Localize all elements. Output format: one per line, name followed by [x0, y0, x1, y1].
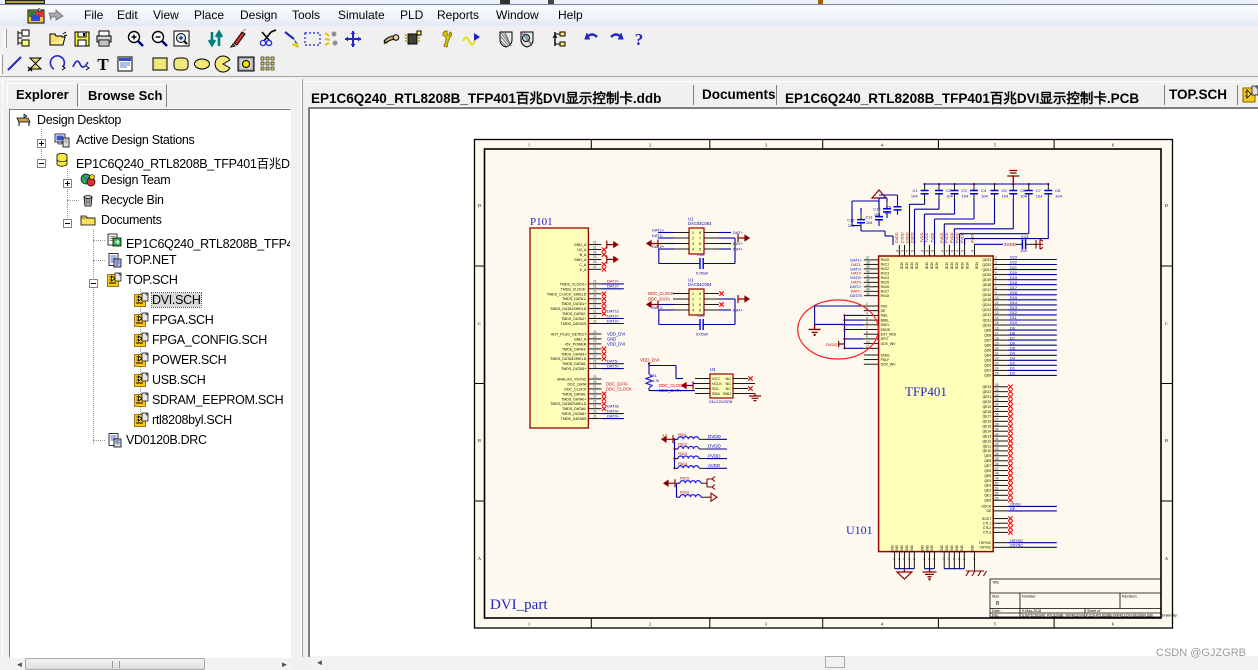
svg-text:45: 45	[995, 457, 999, 461]
svg-text:8: 8	[866, 330, 868, 334]
svg-text:24: 24	[995, 367, 999, 371]
svg-text:TFP401: TFP401	[905, 384, 947, 399]
svg-text:21: 21	[593, 295, 597, 299]
svg-text:7: 7	[962, 558, 966, 560]
svg-text:D6: D6	[1010, 341, 1015, 345]
IC U3 (DDC eeprom)	[640, 358, 761, 405]
svg-text:21: 21	[593, 364, 597, 368]
svg-text:21: 21	[593, 409, 597, 413]
svg-text:21: 21	[593, 255, 597, 259]
svg-text:C20: C20	[697, 252, 705, 257]
svg-text:TMDS_CLOCK+: TMDS_CLOCK+	[560, 282, 587, 286]
svg-text:43: 43	[866, 283, 870, 287]
svg-text:2: 2	[866, 302, 868, 306]
svg-text:8: 8	[945, 250, 949, 252]
svg-text:2: 2	[995, 256, 997, 260]
svg-text:4: 4	[692, 247, 694, 251]
svg-text:RxC4: RxC4	[881, 276, 890, 280]
svg-text:OCK_INV: OCK_INV	[881, 363, 897, 367]
svg-text:7: 7	[699, 297, 701, 301]
svg-text:52: 52	[995, 492, 999, 496]
svg-text:Revision: Revision	[1122, 595, 1137, 599]
ferrite beads FB1-FB4	[662, 433, 727, 470]
svg-text:QE0: QE0	[984, 499, 991, 503]
svg-text:21: 21	[593, 400, 597, 404]
svg-text:TMDS_DATA1+: TMDS_DATA1+	[561, 302, 586, 306]
svg-text:TMDS_CLOCK_SHIELD: TMDS_CLOCK_SHIELD	[547, 292, 587, 296]
svg-text:RxC7: RxC7	[881, 290, 890, 294]
svg-text:QD4: QD4	[984, 354, 991, 358]
svg-text:7: 7	[995, 281, 997, 285]
svg-text:DSEL: DSEL	[881, 323, 890, 327]
svg-text:QD23: QD23	[982, 258, 991, 262]
svg-text:HOT_PLUG_DETECT: HOT_PLUG_DETECT	[551, 333, 588, 337]
svg-text:C7: C7	[1036, 188, 1042, 193]
svg-text:QD19: QD19	[982, 278, 991, 282]
svg-text:TMDS_DATA5+: TMDS_DATA5+	[561, 367, 586, 371]
svg-text:3.3: 3.3	[662, 434, 667, 438]
svg-text:CTL3: CTL3	[983, 531, 991, 535]
svg-text:D22: D22	[1010, 261, 1017, 265]
svg-text:DAT+: DAT+	[733, 246, 744, 251]
svg-text:6: 6	[866, 321, 868, 325]
svg-text:PVDD: PVDD	[950, 232, 954, 243]
svg-text:17: 17	[995, 331, 999, 335]
svg-text:7: 7	[866, 326, 868, 330]
svg-text:104: 104	[1020, 248, 1027, 253]
svg-text:21: 21	[593, 385, 597, 389]
svg-text:21: 21	[593, 319, 597, 323]
svg-text:DE: DE	[986, 509, 991, 513]
svg-text:7: 7	[932, 558, 936, 560]
IC U1 (ESD array)	[647, 217, 749, 276]
svg-text:8: 8	[956, 250, 960, 252]
svg-text:TVDD: TVDD	[930, 232, 934, 243]
svg-text:GND: GND	[920, 544, 924, 552]
svg-text:53: 53	[995, 496, 999, 500]
svg-text:43: 43	[995, 447, 999, 451]
svg-text:8: 8	[931, 250, 935, 252]
svg-text:5: 5	[995, 271, 997, 275]
svg-text:21: 21	[593, 375, 597, 379]
svg-text:ANALOG_VSYNC: ANALOG_VSYNC	[557, 378, 587, 382]
svg-text:9: 9	[995, 291, 997, 295]
svg-text:C12: C12	[847, 218, 855, 223]
svg-text:Sheet of: Sheet of	[1087, 609, 1100, 613]
svg-text:21: 21	[593, 335, 597, 339]
svg-text:21: 21	[593, 290, 597, 294]
svg-text:EDGE: EDGE	[881, 328, 891, 332]
svg-text:QE23: QE23	[983, 385, 992, 389]
svg-text:38: 38	[866, 261, 870, 265]
svg-text:QD21: QD21	[982, 268, 991, 272]
svg-text:47: 47	[995, 467, 999, 471]
svg-text:Drawn By:: Drawn By:	[1162, 614, 1178, 618]
svg-text:QE19: QE19	[983, 405, 992, 409]
svg-text:HSYNC: HSYNC	[1010, 539, 1024, 543]
svg-text:4: 4	[692, 308, 694, 312]
svg-text:VDD: VDD	[965, 262, 969, 270]
svg-text:R1: R1	[652, 374, 657, 378]
svg-text:41: 41	[995, 437, 999, 441]
svg-text:QE11: QE11	[983, 444, 992, 448]
ferrite beads FB5-FB6	[664, 477, 717, 502]
svg-text:GND: GND	[940, 544, 944, 552]
svg-text:OE: OE	[881, 309, 887, 313]
svg-text:2: 2	[692, 236, 694, 240]
svg-text:TMDS_DATA2+: TMDS_DATA2+	[561, 317, 586, 321]
svg-text:QD22: QD22	[982, 263, 991, 267]
svg-text:GND: GND	[945, 544, 949, 552]
svg-text:16: 16	[995, 326, 999, 330]
svg-text:21: 21	[593, 414, 597, 418]
svg-text:QD3: QD3	[984, 359, 991, 363]
svg-text:21: 21	[593, 309, 597, 313]
svg-text:9: 9	[866, 335, 868, 339]
svg-text:QE13: QE13	[983, 434, 992, 438]
svg-text:DDC_DATA: DDC_DATA	[648, 296, 670, 301]
svg-text:21: 21	[593, 285, 597, 289]
svg-text:46: 46	[995, 462, 999, 466]
svg-text:7: 7	[902, 558, 906, 560]
svg-text:40: 40	[866, 270, 870, 274]
svg-text:44: 44	[995, 452, 999, 456]
svg-text:C_A: C_A	[579, 263, 587, 267]
svg-text:QE10: QE10	[983, 449, 992, 453]
svg-text:QE1: QE1	[984, 494, 991, 498]
svg-text:TMDS_DATA3+: TMDS_DATA3+	[561, 352, 586, 356]
svg-text:VDD: VDD	[930, 262, 934, 270]
svg-text:21: 21	[593, 250, 597, 254]
svg-text:EXT_RES: EXT_RES	[881, 333, 897, 337]
svg-text:42: 42	[866, 279, 870, 283]
svg-text:SCL: SCL	[712, 387, 719, 391]
svg-text:7: 7	[897, 558, 901, 560]
svg-text:TMDS_DATA0-: TMDS_DATA0-	[562, 392, 587, 396]
svg-text:32: 32	[995, 393, 999, 397]
svg-text:Number: Number	[1022, 595, 1036, 599]
svg-text:15: 15	[995, 321, 999, 325]
svg-text:41: 41	[866, 274, 870, 278]
svg-text:25: 25	[995, 372, 999, 376]
svg-text:VDD: VDD	[975, 262, 979, 270]
svg-text:C11: C11	[865, 215, 873, 220]
svg-text:DATC+: DATC+	[850, 285, 863, 289]
svg-text:DVDD: DVDD	[900, 232, 904, 243]
svg-text:D19: D19	[1010, 276, 1017, 280]
svg-text:DAT+: DAT+	[733, 307, 744, 312]
annotation red ellipse	[798, 300, 879, 359]
svg-text:7: 7	[947, 558, 951, 560]
svg-text:TMDS_DATA1SHIELD: TMDS_DATA1SHIELD	[550, 307, 587, 311]
svg-text:D17: D17	[1010, 286, 1017, 290]
capacitor row C1-C8	[910, 171, 1063, 246]
svg-text:D20: D20	[1010, 271, 1017, 275]
svg-text:VDD_DVI: VDD_DVI	[607, 341, 625, 346]
svg-text:NC: NC	[726, 377, 732, 381]
svg-text:8: 8	[699, 292, 701, 296]
svg-text:RxC0: RxC0	[881, 258, 890, 262]
svg-text:GND_A: GND_A	[574, 258, 587, 262]
svg-text:GND: GND	[905, 544, 909, 552]
svg-text:2: 2	[649, 622, 651, 627]
svg-text:21: 21	[593, 380, 597, 384]
svg-text:3: 3	[995, 261, 997, 265]
svg-text:QE12: QE12	[983, 439, 992, 443]
svg-text:QD14: QD14	[982, 303, 991, 307]
svg-text:PVDD: PVDD	[945, 232, 949, 243]
svg-text:DDC_CLOCK: DDC_CLOCK	[648, 291, 674, 296]
svg-text:11: 11	[995, 301, 999, 305]
svg-text:DAT2+: DAT2+	[607, 284, 620, 289]
svg-text:DAT0+: DAT0+	[607, 413, 620, 418]
svg-text:RxC2: RxC2	[881, 267, 890, 271]
svg-text:GND: GND	[925, 544, 929, 552]
svg-text:TMDS_DATA6+: TMDS_DATA6+	[561, 412, 586, 416]
svg-text:ODCK: ODCK	[1010, 503, 1021, 507]
svg-text:QE8: QE8	[984, 459, 991, 463]
svg-text:QE3: QE3	[984, 484, 991, 488]
svg-text:2: 2	[649, 143, 651, 148]
svg-text:DAT2+: DAT2+	[850, 267, 862, 271]
svg-text:0.05uF: 0.05uF	[696, 332, 709, 337]
svg-text:4: 4	[995, 266, 997, 270]
svg-text:E_A: E_A	[580, 268, 587, 272]
svg-text:QD2: QD2	[984, 364, 991, 368]
svg-text:8: 8	[895, 250, 899, 252]
svg-text:QD7: QD7	[984, 338, 991, 342]
svg-text:1: 1	[692, 292, 694, 296]
svg-text:QD12: QD12	[982, 313, 991, 317]
svg-text:39: 39	[866, 265, 870, 269]
svg-text:5: 5	[699, 308, 701, 312]
svg-text:D4: D4	[1010, 352, 1015, 356]
svg-text:VDD: VDD	[900, 262, 904, 270]
svg-text:QD0: QD0	[984, 374, 991, 378]
svg-text:QD20: QD20	[982, 273, 991, 277]
svg-text:21: 21	[593, 304, 597, 308]
svg-text:QE9: QE9	[984, 454, 991, 458]
svg-text:104: 104	[981, 194, 988, 199]
svg-text:21: 21	[593, 405, 597, 409]
svg-text:104: 104	[884, 210, 891, 215]
svg-text:C8: C8	[1055, 188, 1061, 193]
svg-text:DVDD: DVDD	[905, 232, 909, 243]
svg-text:TMDS_CLOCK-: TMDS_CLOCK-	[561, 287, 588, 291]
svg-text:PD0: PD0	[881, 304, 888, 308]
svg-text:TMDS_DATA5-: TMDS_DATA5-	[562, 362, 587, 366]
svg-text:GND: GND	[900, 544, 904, 552]
svg-text:DVI_part: DVI_part	[490, 597, 548, 613]
svg-text:File:: File:	[992, 614, 999, 618]
svg-text:D0: D0	[1010, 372, 1015, 376]
svg-text:VSYNC: VSYNC	[1010, 544, 1023, 548]
svg-text:14: 14	[995, 316, 999, 320]
svg-text:RxC3: RxC3	[881, 272, 890, 276]
3VDD net + C13	[975, 234, 1044, 253]
svg-text:37: 37	[866, 256, 870, 260]
svg-text:8: 8	[961, 250, 965, 252]
svg-text:DAT0-: DAT0-	[851, 281, 862, 285]
svg-text:39: 39	[995, 427, 999, 431]
svg-text:QD1: QD1	[984, 369, 991, 373]
svg-text:DAT1-: DAT1-	[851, 263, 862, 267]
svg-text:10: 10	[995, 296, 999, 300]
svg-text:31: 31	[995, 388, 999, 392]
svg-text:21: 21	[593, 390, 597, 394]
svg-text:7: 7	[942, 558, 946, 560]
svg-text:D21: D21	[1010, 266, 1017, 270]
svg-text:DFO: DFO	[881, 337, 889, 341]
svg-text:QE4: QE4	[984, 479, 991, 483]
svg-text:RxC5: RxC5	[881, 281, 890, 285]
svg-text:VCC: VCC	[712, 377, 720, 381]
svg-text:PVDD: PVDD	[955, 232, 959, 243]
svg-text:37: 37	[995, 418, 999, 422]
svg-text:104: 104	[911, 194, 918, 199]
svg-text:QD18: QD18	[982, 283, 991, 287]
svg-text:DVDD: DVDD	[910, 232, 914, 243]
svg-text:PVDD: PVDD	[708, 453, 721, 458]
svg-text:C1: C1	[912, 188, 918, 193]
svg-text:TMDS_DATA1-: TMDS_DATA1-	[562, 297, 587, 301]
svg-text:D15: D15	[1010, 296, 1017, 300]
svg-text:104: 104	[874, 212, 881, 217]
svg-text:6: 6	[995, 276, 997, 280]
capacitors C9-C12 left group	[847, 190, 901, 245]
svg-text:GND: GND	[970, 544, 974, 552]
svg-text:QD8: QD8	[984, 333, 991, 337]
svg-text:6: 6	[699, 303, 701, 307]
svg-text:QD17: QD17	[982, 288, 991, 292]
svg-text:8: 8	[920, 250, 924, 252]
svg-text:C: C	[1165, 321, 1168, 326]
svg-text:TMDS_DATA4SHIELD: TMDS_DATA4SHIELD	[550, 357, 587, 361]
svg-text:PVDD: PVDD	[940, 232, 944, 243]
svg-text:D9: D9	[1010, 326, 1015, 330]
svg-text:GND: GND	[950, 544, 954, 552]
svg-text:21: 21	[593, 360, 597, 364]
svg-text:8: 8	[940, 250, 944, 252]
svg-text:VDD: VDD	[925, 262, 929, 270]
svg-text:7: 7	[893, 558, 897, 560]
svg-text:8: 8	[995, 286, 997, 290]
svg-text:C10: C10	[873, 207, 881, 212]
svg-text:21: 21	[593, 265, 597, 269]
svg-text:STAG: STAG	[881, 353, 890, 357]
svg-text:VDD: VDD	[960, 262, 964, 270]
svg-text:DVDD: DVDD	[895, 232, 899, 243]
svg-text:QD13: QD13	[982, 308, 991, 312]
svg-text:8: 8	[901, 250, 905, 252]
svg-text:VDD: VDD	[935, 262, 939, 270]
svg-text:7: 7	[912, 558, 916, 560]
svg-text:C: C	[478, 321, 481, 326]
ground symbols under U101	[897, 569, 912, 579]
svg-text:DATC-: DATC-	[851, 290, 863, 294]
svg-text:D16: D16	[1010, 291, 1017, 295]
svg-text:34: 34	[995, 403, 999, 407]
svg-text:7: 7	[923, 558, 927, 560]
svg-text:49: 49	[995, 477, 999, 481]
svg-text:18: 18	[995, 336, 999, 340]
svg-text:AVDD: AVDD	[708, 463, 721, 468]
svg-text:Size: Size	[992, 595, 999, 599]
svg-text:OCK_INV: OCK_INV	[881, 342, 897, 346]
sheet inner border	[485, 149, 1162, 618]
svg-text:GND: GND	[960, 544, 964, 552]
svg-text:21: 21	[593, 350, 597, 354]
svg-text:NC: NC	[726, 387, 732, 391]
svg-text:DAT0+: DAT0+	[850, 276, 862, 280]
svg-text:23: 23	[995, 362, 999, 366]
svg-text:VSYNC: VSYNC	[980, 546, 992, 550]
svg-text:QE6: QE6	[984, 469, 991, 473]
svg-text:QD10: QD10	[982, 323, 991, 327]
svg-text:33: 33	[995, 398, 999, 402]
svg-text:Title: Title	[992, 581, 999, 585]
svg-text:BSEL: BSEL	[881, 318, 890, 322]
svg-text:50: 50	[995, 482, 999, 486]
svg-text:C5: C5	[1002, 188, 1008, 193]
svg-text:42: 42	[995, 442, 999, 446]
svg-text:51: 51	[995, 487, 999, 491]
svg-text:21: 21	[593, 300, 597, 304]
svg-text:DVDD: DVDD	[708, 444, 722, 449]
svg-text:NC: NC	[726, 382, 732, 386]
svg-text:HSYNC: HSYNC	[979, 541, 991, 545]
svg-text:U2_A: U2_A	[577, 248, 587, 252]
svg-text:21: 21	[593, 330, 597, 334]
svg-text:QE2: QE2	[984, 489, 991, 493]
svg-text:B: B	[1165, 438, 1168, 443]
svg-text:QE20: QE20	[983, 400, 992, 404]
svg-text:GND: GND	[955, 544, 959, 552]
sheet grid refs	[590, 140, 592, 150]
svg-text:GND: GND	[890, 544, 894, 552]
svg-text:10: 10	[866, 340, 870, 344]
svg-text:D10: D10	[1010, 321, 1017, 325]
svg-text:48: 48	[995, 472, 999, 476]
svg-text:8: 8	[699, 231, 701, 235]
svg-text:QE14: QE14	[983, 430, 992, 434]
svg-text:D3: D3	[1010, 357, 1015, 361]
svg-text:VDD: VDD	[905, 262, 909, 270]
svg-text:DAT1+: DAT1+	[652, 228, 665, 233]
svg-text:TMDS_DATA3-: TMDS_DATA3-	[562, 347, 587, 351]
svg-text:QE17: QE17	[983, 415, 992, 419]
svg-text:7: 7	[973, 558, 977, 560]
svg-text:TMDS_DATA2S: TMDS_DATA2S	[561, 322, 587, 326]
svg-text:CTL2: CTL2	[983, 526, 991, 530]
svg-text:8: 8	[971, 250, 975, 252]
svg-text:7: 7	[928, 558, 932, 560]
svg-text:22: 22	[995, 357, 999, 361]
svg-text:7: 7	[907, 558, 911, 560]
svg-text:QE21: QE21	[983, 395, 992, 399]
svg-text:GND_A: GND_A	[574, 243, 587, 247]
title block	[990, 579, 1178, 618]
svg-text:E:\EP1C6Q240_RTL8208B_TFP401DV: E:\EP1C6Q240_RTL8208B_TFP401DVI\EP1C6-RT…	[1022, 614, 1153, 618]
svg-text:TMDS_DATA6-: TMDS_DATA6-	[562, 407, 587, 411]
svg-text:D8: D8	[1010, 331, 1015, 335]
svg-text:30: 30	[995, 383, 999, 387]
svg-text:0.05uF: 0.05uF	[696, 271, 709, 276]
svg-text:C20: C20	[697, 313, 705, 318]
svg-text:6: 6	[699, 242, 701, 246]
svg-text:DVDD: DVDD	[708, 434, 722, 439]
svg-text:D23: D23	[1010, 256, 1017, 260]
